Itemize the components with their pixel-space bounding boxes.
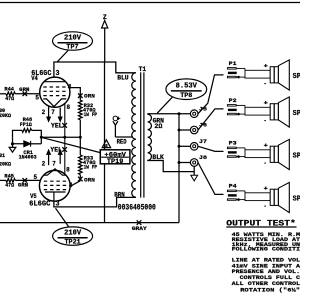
svg-text:SP: SP: [293, 73, 300, 81]
jack J5: [190, 110, 198, 118]
svg-text:SP: SP: [293, 196, 300, 204]
svg-text:BRN: BRN: [114, 192, 125, 199]
top border line: [0, 2, 300, 4]
svg-text:P3: P3: [229, 141, 237, 147]
svg-text:TP7: TP7: [66, 44, 78, 52]
jack J7: [190, 143, 198, 151]
junction dot GRN bus: [178, 112, 181, 115]
svg-text:7: 7: [52, 160, 56, 168]
svg-text:ORN: ORN: [84, 176, 95, 183]
svg-text:R44: R44: [4, 87, 14, 93]
tube V4 plate: [44, 81, 66, 83]
tube V4 grids: [43, 87, 66, 96]
svg-text:BLK: BLK: [152, 154, 164, 161]
ground below R48: [12, 144, 14, 148]
svg-text:R45: R45: [4, 173, 14, 179]
cable P1: [245, 70, 270, 78]
svg-text:47Ω: 47Ω: [5, 96, 14, 102]
wire jack to plug P2: [198, 109, 224, 130]
svg-text:47Ω: 47Ω: [5, 183, 14, 189]
resistor R48: [13, 130, 23, 137]
resistor R33: [79, 155, 83, 175]
wire V4 plate to T1 primary top: [54, 62, 136, 78]
label GRAY wire marker: [137, 220, 142, 225]
svg-text:0036405000: 0036405000: [118, 204, 156, 213]
wire R48 node to R32 node: [41, 136, 80, 138]
tube V4 envelope: [40, 77, 70, 107]
svg-text:-: -: [264, 117, 267, 124]
plug P3: [227, 147, 236, 149]
tube V5 grids: [44, 181, 67, 189]
junction dot pin8 wire: [63, 136, 66, 139]
transformer T1 core: [140, 72, 142, 197]
svg-text:210V: 210V: [64, 229, 82, 237]
V4 heater pin 7 wire: [59, 108, 61, 118]
wire plug P4 to cable: [236, 190, 245, 192]
wire R32 to midpoint: [79, 120, 81, 138]
wire V4 pin8 to V5 pin8: [64, 104, 66, 175]
test point TP21: [53, 227, 93, 245]
svg-text:FOLLOWING CONDITI: FOLLOWING CONDITI: [232, 246, 300, 253]
svg-text:ROTATION ("6½": ROTATION ("6½": [232, 287, 300, 294]
transformer T1 primary winding: [132, 73, 136, 198]
node dot R48 right: [40, 136, 43, 139]
wire plug P2 to cable: [236, 104, 245, 106]
svg-text:GRN: GRN: [19, 87, 29, 93]
svg-text:5: 5: [34, 174, 38, 182]
wire V4 pin4 to R32: [69, 88, 81, 101]
B+ supply symbol: [113, 116, 118, 121]
svg-text:YEL: YEL: [51, 123, 63, 130]
wire plug P3 to cable: [236, 147, 245, 149]
wire BLK tap: [147, 161, 194, 172]
wire stub to J6: [179, 129, 190, 131]
V5 heater pin 7 wire: [59, 154, 61, 164]
tube V5 plate: [45, 191, 66, 193]
test point TP8 pointer: [157, 97, 172, 113]
svg-text:+: +: [264, 100, 269, 107]
wire GRN tap to J5: [147, 113, 190, 115]
svg-text:31: 31: [0, 153, 5, 159]
resistor R32: [79, 100, 83, 120]
svg-text:1N4003: 1N4003: [19, 155, 37, 161]
svg-text:T1: T1: [139, 66, 147, 73]
svg-text:2: 2: [42, 109, 46, 117]
V5 heater pin 2 wire: [48, 154, 50, 165]
test point TP21 pointer: [56, 208, 70, 227]
wire R33 to V5 pin4: [79, 175, 81, 181]
svg-text:P4: P4: [229, 184, 238, 190]
svg-text:8: 8: [67, 104, 71, 112]
wire jack to plug P1: [198, 75, 224, 114]
wire stub to J7: [179, 145, 190, 147]
svg-text:RED: RED: [117, 139, 127, 146]
cable P3: [245, 150, 270, 158]
svg-text:+: +: [264, 142, 269, 149]
svg-text:J7: J7: [199, 138, 208, 145]
label ORN wire marker V4: [78, 93, 83, 98]
tube V4 cathode: [43, 99, 66, 107]
tube V5 cathode: [44, 169, 66, 175]
jack J8: [190, 159, 198, 167]
junction dot R32-R33 midpoint: [79, 136, 82, 139]
test point TP7 pointer: [57, 51, 68, 62]
cable P4: [245, 193, 270, 201]
svg-text:SP: SP: [293, 110, 300, 118]
junction dot bus J7: [178, 145, 181, 148]
wire B+ to T1 center tap: [115, 136, 133, 138]
svg-text:1W FP: 1W FP: [84, 164, 98, 170]
jack J6: [190, 126, 198, 134]
svg-text:2: 2: [42, 160, 46, 168]
junction dot bus J6: [178, 129, 181, 132]
svg-text:210V: 210V: [64, 34, 82, 42]
resistor R44: [0, 93, 6, 95]
speaker P3: [270, 146, 278, 162]
svg-text:TP8: TP8: [180, 92, 192, 100]
warning triangle note 8: [102, 140, 110, 148]
junction dot bus J8: [178, 161, 181, 164]
wire jack to plug P4: [198, 163, 224, 195]
label ORN wire marker V5: [78, 177, 83, 182]
speaker P2: [270, 104, 278, 120]
resistor R45: [0, 179, 6, 181]
wire speaker common bus: [178, 114, 180, 223]
plug P2: [227, 105, 236, 107]
svg-text:2Ω: 2Ω: [154, 123, 162, 130]
test point TP8: [166, 79, 207, 100]
svg-text:BLU: BLU: [117, 75, 129, 82]
svg-text:8.53V: 8.53V: [176, 83, 198, 91]
tube V5 envelope: [39, 170, 70, 201]
svg-text:GRN: GRN: [18, 183, 28, 189]
svg-text:SP: SP: [293, 153, 300, 161]
svg-text:+: +: [264, 185, 269, 192]
plug P1: [227, 68, 236, 70]
svg-text:ORN: ORN: [84, 93, 95, 100]
svg-text:GRAY: GRAY: [132, 225, 148, 232]
wire GRAY return: [0, 222, 179, 224]
svg-text:TP19: TP19: [107, 158, 124, 166]
wire jack to plug P3: [198, 146, 224, 151]
wire midpoint to R33: [79, 137, 81, 155]
svg-text:1W FP: 1W FP: [84, 112, 98, 118]
transformer T1 secondary winding: [148, 114, 152, 160]
test point TP7: [53, 32, 93, 50]
svg-text:-: -: [264, 203, 267, 210]
svg-text:J8: J8: [199, 154, 208, 161]
svg-text:8: 8: [105, 144, 108, 149]
svg-text:-: -: [264, 80, 267, 87]
ground below J8: [193, 166, 195, 175]
wire TP19 pointer: [41, 137, 100, 152]
svg-text:YEL: YEL: [50, 147, 62, 154]
cable P2: [245, 107, 270, 115]
svg-text:8: 8: [66, 166, 70, 174]
wire V5 plate to T1 primary bottom: [54, 197, 136, 207]
svg-text:+: +: [264, 63, 269, 70]
wire plug P1 to cable: [236, 67, 245, 69]
test point TP19 box: [100, 150, 130, 164]
node dot R48 left: [11, 142, 14, 145]
svg-text:V4: V4: [31, 75, 38, 83]
svg-text:6L6GC: 6L6GC: [29, 200, 51, 208]
svg-text:P2: P2: [229, 98, 237, 104]
diode CR1 branch: [13, 137, 24, 144]
plug P4: [227, 190, 236, 192]
svg-text:P1: P1: [229, 61, 237, 67]
svg-text:20KΩ: 20KΩ: [0, 161, 11, 167]
wire Z line vertical: [104, 62, 106, 223]
wire stub to J8: [179, 162, 190, 164]
svg-text:TP21: TP21: [65, 239, 81, 247]
V4 heater pin 2 wire: [48, 106, 50, 117]
svg-text:-: -: [264, 160, 267, 167]
svg-text:20KΩ: 20KΩ: [0, 113, 11, 119]
speaker P1: [270, 67, 278, 83]
svg-text:5: 5: [35, 94, 39, 102]
svg-text:7: 7: [51, 109, 55, 117]
svg-text:FP1Ω: FP1Ω: [20, 122, 32, 128]
speaker P4: [270, 189, 278, 205]
